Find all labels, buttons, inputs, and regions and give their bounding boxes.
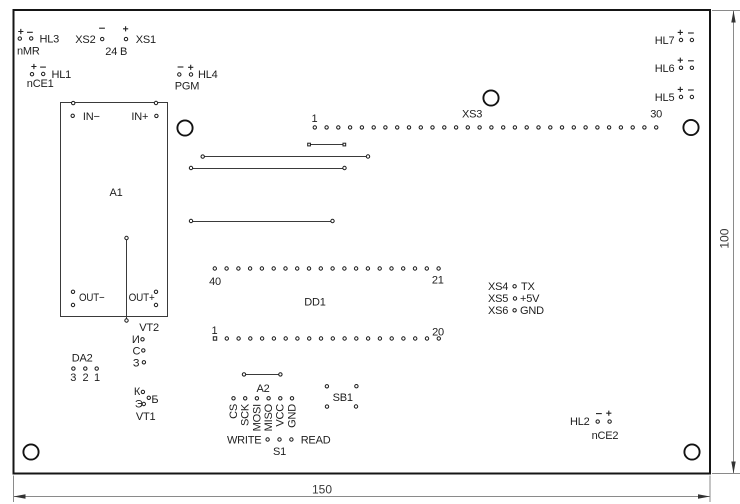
dimension 150 arrows (14, 494, 26, 498)
svg-text:24 В: 24 В (105, 46, 127, 58)
svg-text:150: 150 (312, 483, 332, 497)
svg-text:1: 1 (312, 113, 318, 125)
svg-text:HL5: HL5 (655, 92, 675, 104)
svg-text:DA2: DA2 (72, 352, 93, 364)
svg-text:Э: Э (135, 399, 143, 411)
mounting hole top-right (683, 120, 698, 135)
svg-text:PGM: PGM (175, 80, 199, 92)
svg-text:К: К (134, 386, 141, 398)
svg-text:HL7: HL7 (655, 35, 675, 47)
XS2 polarity - (99, 27, 105, 29)
A1 top mounting pads (72, 101, 75, 104)
svg-text:OUT+: OUT+ (129, 292, 155, 304)
svg-text:CS: CS (228, 404, 240, 419)
mounting hole top-middle (483, 90, 498, 105)
dimension 100 arrows (731, 11, 735, 23)
LED HL6 pads (679, 66, 682, 69)
svg-text:XS4: XS4 (488, 281, 508, 293)
svg-text:XS6: XS6 (488, 305, 508, 317)
svg-text:HL6: HL6 (655, 63, 675, 75)
svg-text:XS3: XS3 (462, 109, 482, 121)
connector XS2 pad (101, 37, 104, 40)
svg-text:3: 3 (70, 372, 76, 384)
wire jumper W4 (191, 221, 333, 223)
svg-text:GND: GND (520, 305, 544, 317)
svg-text:MOSI: MOSI (251, 404, 263, 431)
mounting hole bottom-right (684, 444, 699, 459)
wire jumper W6 (244, 374, 280, 376)
dimension 150 line (14, 496, 711, 498)
svg-text:Б: Б (151, 394, 158, 406)
module A2 pads (232, 397, 235, 400)
svg-text:HL2: HL2 (570, 416, 590, 428)
VT1 pin Б (147, 396, 150, 399)
switch S1 pads (266, 438, 269, 441)
svg-text:OUT−: OUT− (79, 292, 105, 304)
wire jumper W3 (191, 168, 345, 170)
IC DD1 pads 40..21 (213, 267, 216, 270)
svg-text:+5V: +5V (520, 293, 540, 305)
A1 pad IN- (71, 114, 74, 117)
svg-text:30: 30 (650, 109, 662, 121)
svg-text:HL3: HL3 (40, 33, 60, 45)
A1 pads OUT+ (154, 290, 157, 293)
svg-text:nMR: nMR (17, 46, 40, 58)
HL3 polarity + (18, 29, 23, 34)
svg-text:SB1: SB1 (333, 392, 353, 404)
svg-text:40: 40 (209, 276, 221, 288)
svg-text:IN−: IN− (83, 111, 100, 123)
svg-text:nCE2: nCE2 (592, 430, 619, 442)
svg-text:nCE1: nCE1 (27, 78, 54, 90)
LED HL1 pads (30, 73, 33, 76)
svg-text:XS2: XS2 (75, 34, 95, 46)
HL2 polarity + (606, 411, 611, 416)
mounting hole top-left (177, 120, 192, 135)
svg-text:IN+: IN+ (131, 111, 148, 123)
svg-text:2: 2 (83, 372, 89, 384)
A1 pad IN+ (155, 114, 158, 117)
svg-text:MISO: MISO (263, 403, 275, 431)
button SB1 pads (325, 385, 328, 388)
wire W5 vertical (126, 238, 128, 321)
wire jumper W2 (203, 156, 368, 158)
svg-text:A1: A1 (110, 187, 123, 199)
svg-text:GND: GND (286, 404, 298, 428)
svg-text:VCC: VCC (275, 404, 287, 427)
HL5 polarity + (678, 87, 683, 92)
module A1 outline (61, 103, 168, 317)
svg-text:VT2: VT2 (139, 322, 159, 334)
XS1 polarity + (123, 26, 128, 31)
svg-text:1: 1 (94, 372, 100, 384)
HL5 polarity - (688, 89, 694, 91)
svg-text:21: 21 (432, 275, 444, 287)
svg-text:XS1: XS1 (136, 34, 156, 46)
svg-text:VT1: VT1 (136, 411, 156, 423)
svg-text:A2: A2 (257, 383, 270, 395)
dimension 100 line (733, 11, 735, 474)
HL7 polarity - (688, 32, 694, 34)
LED HL5 pads (679, 95, 682, 98)
svg-text:READ: READ (301, 434, 331, 446)
svg-text:1: 1 (212, 325, 218, 337)
wire jumper W1 (309, 144, 344, 146)
svg-text:DD1: DD1 (304, 297, 325, 309)
HL7 polarity + (678, 30, 683, 35)
HL4 polarity - (178, 66, 184, 68)
dimension 100 extension lines (712, 10, 740, 12)
connector XS1 pad (124, 37, 127, 40)
IC DD1 pads 2..20 (225, 337, 228, 340)
HL2 polarity - (596, 413, 602, 415)
svg-text:SCK: SCK (240, 403, 252, 426)
IC DD1 pad 1 (square) (213, 337, 216, 340)
mounting hole bottom-left (23, 444, 38, 459)
HL6 polarity - (688, 60, 694, 62)
svg-text:WRITE: WRITE (227, 434, 261, 446)
dimension 150 extension lines (13, 476, 15, 503)
HL4 polarity + (188, 65, 193, 70)
HL3 polarity - (27, 31, 33, 33)
svg-text:TX: TX (521, 281, 536, 293)
HL1 polarity - (40, 66, 46, 68)
LED HL7 pads (679, 38, 682, 41)
A1 pads OUT- (71, 290, 74, 293)
svg-text:HL4: HL4 (198, 69, 218, 81)
svg-text:100: 100 (718, 228, 732, 248)
HL6 polarity + (678, 58, 683, 63)
LED HL4 pads (178, 73, 181, 76)
HL1 polarity + (31, 64, 36, 69)
svg-text:С: С (133, 346, 141, 358)
svg-text:И: И (132, 334, 140, 346)
svg-text:HL1: HL1 (52, 69, 72, 81)
LED HL3 pads (18, 37, 21, 40)
LED HL2 pads (596, 420, 599, 423)
connector XS3 pads 1..30 (313, 126, 316, 129)
svg-text:S1: S1 (273, 446, 286, 458)
DA2 pads 3 2 1 (72, 367, 75, 370)
svg-text:З: З (133, 358, 140, 370)
svg-text:XS5: XS5 (488, 293, 508, 305)
